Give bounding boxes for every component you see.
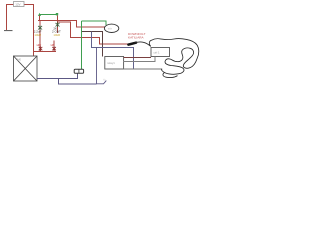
transformer T1 bbox=[14, 56, 38, 81]
resistor column R1 bbox=[39, 21, 41, 52]
wire bbox=[57, 16, 59, 23]
wire: bottom bus of LED pair bbox=[34, 51, 57, 53]
wire: dark branch to relay box bbox=[82, 31, 103, 56]
svg-text:ctrl 1: ctrl 1 bbox=[154, 50, 161, 54]
svg-text:KATILIARA: KATILIARA bbox=[128, 35, 145, 39]
controller U1 bbox=[151, 48, 170, 57]
wire: transformer secondary to contact bbox=[37, 73, 77, 78]
LED D1 bbox=[38, 25, 42, 30]
wire: relay bottom to load bbox=[124, 68, 162, 70]
wire: bottom purple return bbox=[58, 79, 96, 84]
wire: top red bus to motor bbox=[38, 21, 105, 27]
wire: relay to controller bottom bbox=[124, 57, 155, 62]
battery B1 bbox=[14, 2, 25, 7]
wire: purple vertical right with hook bbox=[97, 47, 107, 83]
motor M1 bbox=[104, 24, 118, 32]
svg-text:mtr: mtr bbox=[108, 27, 112, 31]
wire: battery loop right, down to transformer bbox=[24, 5, 34, 57]
wire bbox=[39, 16, 41, 21]
wire: second red path to fuse bbox=[58, 22, 129, 44]
wire: relay to controller top bbox=[124, 57, 151, 59]
fuse F1 (black blob) bbox=[128, 43, 136, 45]
contact CT1 bbox=[74, 69, 83, 73]
resistor column R2 bbox=[57, 22, 59, 33]
svg-text:10kR: 10kR bbox=[34, 33, 41, 37]
load scribble (single stroke coil from fuse lead to relay wire) bbox=[134, 39, 198, 75]
wire: green to motor bbox=[82, 21, 107, 25]
svg-text:240: 240 bbox=[17, 59, 22, 62]
load scribble bottom dip bbox=[163, 73, 178, 78]
LED D2 bbox=[56, 22, 60, 27]
svg-text:10kR: 10kR bbox=[53, 33, 60, 37]
ground bbox=[4, 30, 13, 31]
wire: battery loop left bbox=[7, 5, 14, 31]
relay K1 bbox=[105, 57, 124, 70]
svg-text:12V: 12V bbox=[15, 3, 20, 7]
wire: purple branch bbox=[92, 32, 134, 69]
svg-text:relay1: relay1 bbox=[107, 61, 115, 65]
switch S1 (green) bbox=[39, 14, 58, 16]
wire: green vertical bbox=[81, 21, 83, 69]
